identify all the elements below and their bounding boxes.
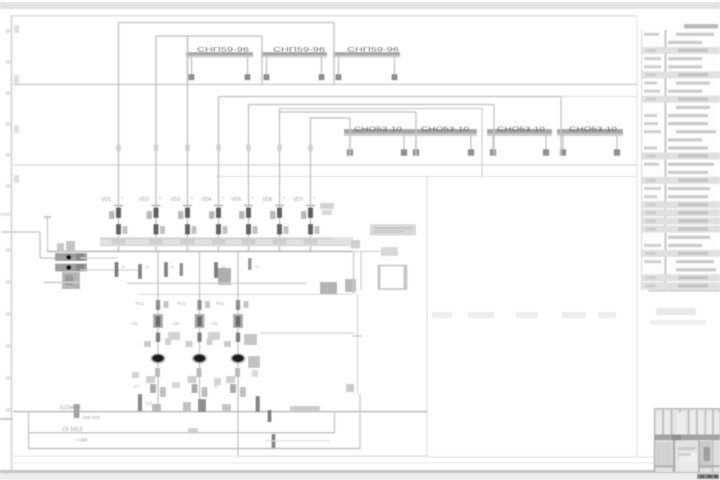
small box x356 y240 (351, 240, 360, 249)
frame tick y418 (0, 418, 13, 420)
wire vertical x47 (47, 218, 49, 252)
component tick x181 (180, 263, 184, 276)
svg-text:1к: 1к (221, 264, 225, 269)
wire input from frame y232 (2, 231, 40, 233)
wire vertical x118 (118, 23, 120, 252)
emitter marks Q3 (230, 384, 236, 393)
capacitor C1 tick (115, 262, 119, 277)
bus line y238 (100, 238, 332, 240)
wire L feed to X5 (280, 111, 417, 113)
component tick x216 (214, 262, 218, 278)
frame bottom outer margin (0, 473, 720, 480)
resistor R22 dark (195, 314, 205, 328)
svg-text:СНО53-10: СНО53-10 (569, 126, 617, 133)
svg-text:VD5: VD5 (232, 197, 242, 203)
emitter marks Q1 (150, 384, 156, 393)
transformer T1 winding band lower (55, 264, 87, 272)
bottom light line y457 right (428, 456, 655, 458)
transistor branch Q3 wire (237, 251, 239, 456)
svg-text:K: K (122, 195, 125, 200)
frame bottom thick band (0, 470, 720, 474)
frame top line (11, 15, 637, 17)
inter-branch label marks (168, 332, 180, 340)
svg-text:VD6: VD6 (263, 197, 273, 203)
svg-text:СНО53-10: СНО53-10 (421, 126, 469, 133)
table left border (641, 30, 643, 291)
capacitor C2 tick (138, 264, 142, 279)
title block lower text marks (678, 447, 695, 450)
resistor R12 dark (153, 314, 163, 328)
svg-text:K: K (159, 195, 162, 200)
component x200 on bus (198, 399, 206, 412)
light line y440.8 (265, 440, 330, 442)
wire L feed to X2 (155, 35, 262, 37)
svg-text:R11: R11 (136, 301, 145, 306)
emitter marks Q2 (192, 384, 198, 393)
transistor branch Q2 wire (199, 251, 201, 411)
svg-text:1к: 1к (121, 264, 125, 269)
wire vertical feed to X1 (187, 36, 189, 84)
svg-text:1к: 1к (170, 264, 174, 269)
resistor R32 dark (233, 314, 243, 328)
wire bus under top blocks y84 (13, 83, 637, 85)
wire y251 stub to label (352, 250, 392, 252)
component tick x250 (248, 258, 252, 270)
svg-text:R21: R21 (178, 301, 187, 306)
wire vertical x186 (187, 36, 189, 251)
wire from cluster y270 (80, 269, 140, 271)
base tick Q2 (197, 333, 201, 343)
wire vertical x273 (279, 109, 281, 252)
table rows group (644, 33, 659, 36)
frame right faint line (636, 16, 638, 457)
title block lower cells (656, 442, 672, 468)
svg-text:K: K (252, 195, 255, 200)
connector block X7 bar+legs+pads (557, 129, 623, 134)
title block top columns (654, 408, 656, 436)
cap tick x257 on bus (256, 396, 260, 412)
svg-text:10к: 10к (173, 321, 180, 326)
loop x335 vertical (334, 412, 336, 433)
wire L feed to X3 (118, 22, 334, 24)
faint note below table (656, 308, 696, 315)
wire bus y176 (216, 176, 637, 178)
connector block X1 bar+legs+pads (186, 52, 253, 56)
transformer core dot upper (66, 255, 71, 260)
wire vertical x361 (360, 251, 362, 290)
wire L feed to X4 (311, 117, 351, 119)
cluster lower blob (62, 272, 80, 289)
junction marks on bus y411 (152, 404, 161, 412)
bus band y237-246 (100, 237, 353, 246)
base tick Q1 (156, 333, 160, 343)
transformer T1 winding band upper (55, 253, 87, 261)
svg-text:10к: 10к (131, 321, 138, 326)
wire L feed to X7 (219, 96, 562, 98)
wire vertical x155 (155, 36, 157, 251)
faint value text row y315 (432, 312, 452, 318)
wire L down between X5 X6 (280, 108, 483, 110)
parts list table (641, 24, 720, 292)
bottom light line y463 (11, 462, 655, 464)
connector block X4 bar+legs+pads (344, 129, 410, 134)
frame zone squares (14, 25, 19, 33)
title block base (654, 408, 720, 472)
cap tick x140 on bus (138, 394, 142, 411)
bus y448 (28, 448, 360, 450)
svg-text:VD4: VD4 (202, 197, 212, 203)
svg-text:10к: 10к (211, 321, 218, 326)
svg-text:25В К50: 25В К50 (82, 415, 100, 421)
scatter marks y370-400 (132, 372, 139, 378)
svg-text:VD1: VD1 (102, 197, 112, 203)
base tick Q3 (236, 333, 240, 343)
svg-text:R31: R31 (216, 301, 225, 306)
svg-text:VD7: VD7 (294, 197, 304, 203)
svg-text:Сб: Сб (146, 401, 152, 406)
left vertical x28 (28, 412, 30, 449)
connector block X5 bar+legs+pads (410, 129, 477, 134)
wire y283 (127, 282, 307, 284)
label PV1 above box (381, 247, 398, 256)
svg-text:СНП59-96: СНП59-96 (273, 46, 325, 53)
stage vertical tick marks y145 (116, 145, 120, 152)
table header text (684, 24, 718, 29)
transistor Q1 body dot (150, 353, 165, 363)
transistor Q2 body dot (192, 353, 207, 363)
table bottom line (648, 290, 720, 292)
title block middle dark band (654, 435, 720, 441)
branch3 side marks (244, 334, 257, 345)
svg-text:СНО53-10: СНО53-10 (354, 126, 402, 133)
connector block X2 bar+legs+pads (261, 52, 327, 56)
frame left zone ticks (6, 29, 11, 33)
wire vertical x353 long (353, 251, 355, 294)
cluster upper marks (57, 243, 64, 252)
svg-text:VD3: VD3 (171, 197, 181, 203)
svg-text:K: K (191, 195, 194, 200)
frame left border line (11, 15, 13, 470)
svg-text:1к: 1к (145, 264, 149, 269)
label plate above PV1 (370, 224, 416, 236)
bottom light line y456 (11, 455, 237, 457)
wire L feed to X6 (249, 104, 495, 106)
svg-text:КТ: КТ (134, 384, 140, 389)
svg-text:СНО53-10: СНО53-10 (497, 126, 545, 133)
bus y411 (13, 411, 427, 413)
wire from cluster y258 (80, 257, 118, 259)
bus line y245 (100, 244, 352, 246)
svg-text:K: K (222, 195, 225, 200)
component tick x166 (164, 262, 168, 277)
wire y294 (138, 293, 352, 295)
frame mid divider band (0, 213, 11, 217)
svg-text:СНП59-96: СНП59-96 (197, 46, 249, 53)
wire vertical x306 (310, 118, 312, 251)
svg-text:1к: 1к (255, 264, 259, 269)
svg-text:K: K (283, 195, 286, 200)
transistor Q3 body dot (230, 353, 245, 363)
title block dark cell (704, 447, 711, 461)
wire bus under second row y165 (13, 164, 637, 166)
svg-text:×16В: ×16В (76, 438, 87, 444)
loop x360 vertical (359, 394, 361, 449)
bus y432 (28, 432, 335, 434)
main bus y251 (47, 250, 352, 252)
wire vertical x247 (248, 105, 250, 252)
cap tick x269 (268, 410, 272, 422)
svg-text:VD2: VD2 (139, 197, 149, 203)
table divider x665 (665, 30, 667, 291)
transistor branch Q1 wire (157, 251, 159, 411)
svg-text:K: K (314, 195, 317, 200)
transformer core dot lower (66, 265, 71, 270)
faint line y96 continuation (561, 96, 637, 98)
wire vertical x427 long (426, 177, 428, 458)
wire corner x40 down (39, 232, 41, 258)
stage7 side text (320, 203, 334, 209)
connector block X3 bar+legs+pads (333, 52, 400, 56)
wire vertical x357 from bus251 (357, 294, 359, 394)
connector block X6 bar+legs+pads (487, 129, 552, 134)
component x350 block (345, 279, 356, 292)
tick x269 on y432 (272, 434, 276, 448)
component cluster x222 (218, 268, 231, 285)
svg-text:Сб 100,0: Сб 100,0 (62, 427, 83, 433)
device box PV1 (379, 266, 407, 290)
wire y333 (260, 332, 354, 334)
title block bottom corner stamp text (697, 474, 719, 479)
wire vertical x217 (218, 97, 220, 252)
svg-text:СНП59-96: СНП59-96 (347, 46, 399, 53)
top gray margin strip (0, 2, 720, 9)
component cluster x328 (320, 282, 337, 294)
